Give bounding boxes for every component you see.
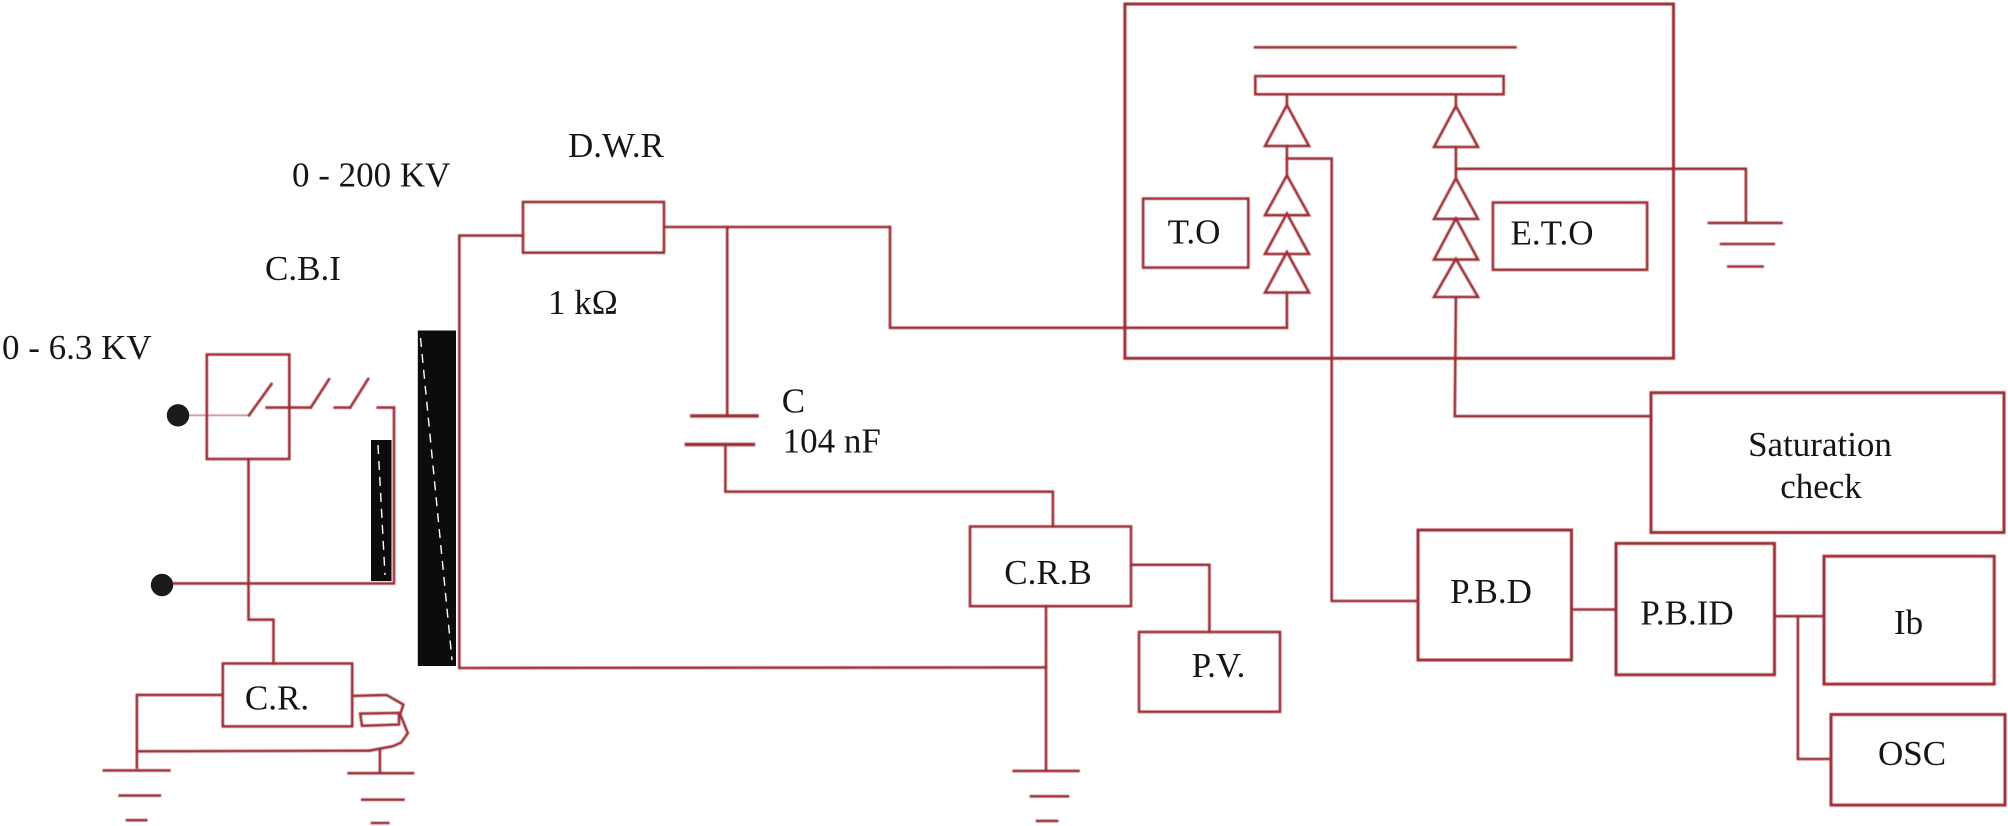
svg-text:T.O: T.O (1168, 213, 1221, 252)
svg-text:C.R.: C.R. (245, 678, 309, 717)
svg-text:C.R.B: C.R.B (1004, 553, 1092, 592)
svg-text:E.T.O: E.T.O (1511, 213, 1594, 252)
svg-text:D.W.R: D.W.R (568, 126, 665, 165)
svg-text:Saturation: Saturation (1748, 425, 1892, 464)
svg-text:C.B.I: C.B.I (265, 249, 341, 288)
svg-text:Ib: Ib (1894, 603, 1923, 642)
svg-text:check: check (1780, 467, 1862, 506)
svg-text:0 - 200 KV: 0 - 200 KV (292, 155, 450, 194)
svg-text:P.B.ID: P.B.ID (1640, 594, 1733, 633)
svg-text:0 - 6.3 KV: 0 - 6.3 KV (2, 328, 152, 367)
svg-text:P.B.D: P.B.D (1450, 572, 1532, 611)
svg-text:OSC: OSC (1878, 734, 1946, 773)
svg-text:1 kΩ: 1 kΩ (548, 283, 618, 322)
svg-text:104 nF: 104 nF (783, 422, 881, 461)
svg-text:C: C (782, 382, 805, 421)
svg-text:P.V.: P.V. (1192, 646, 1246, 685)
